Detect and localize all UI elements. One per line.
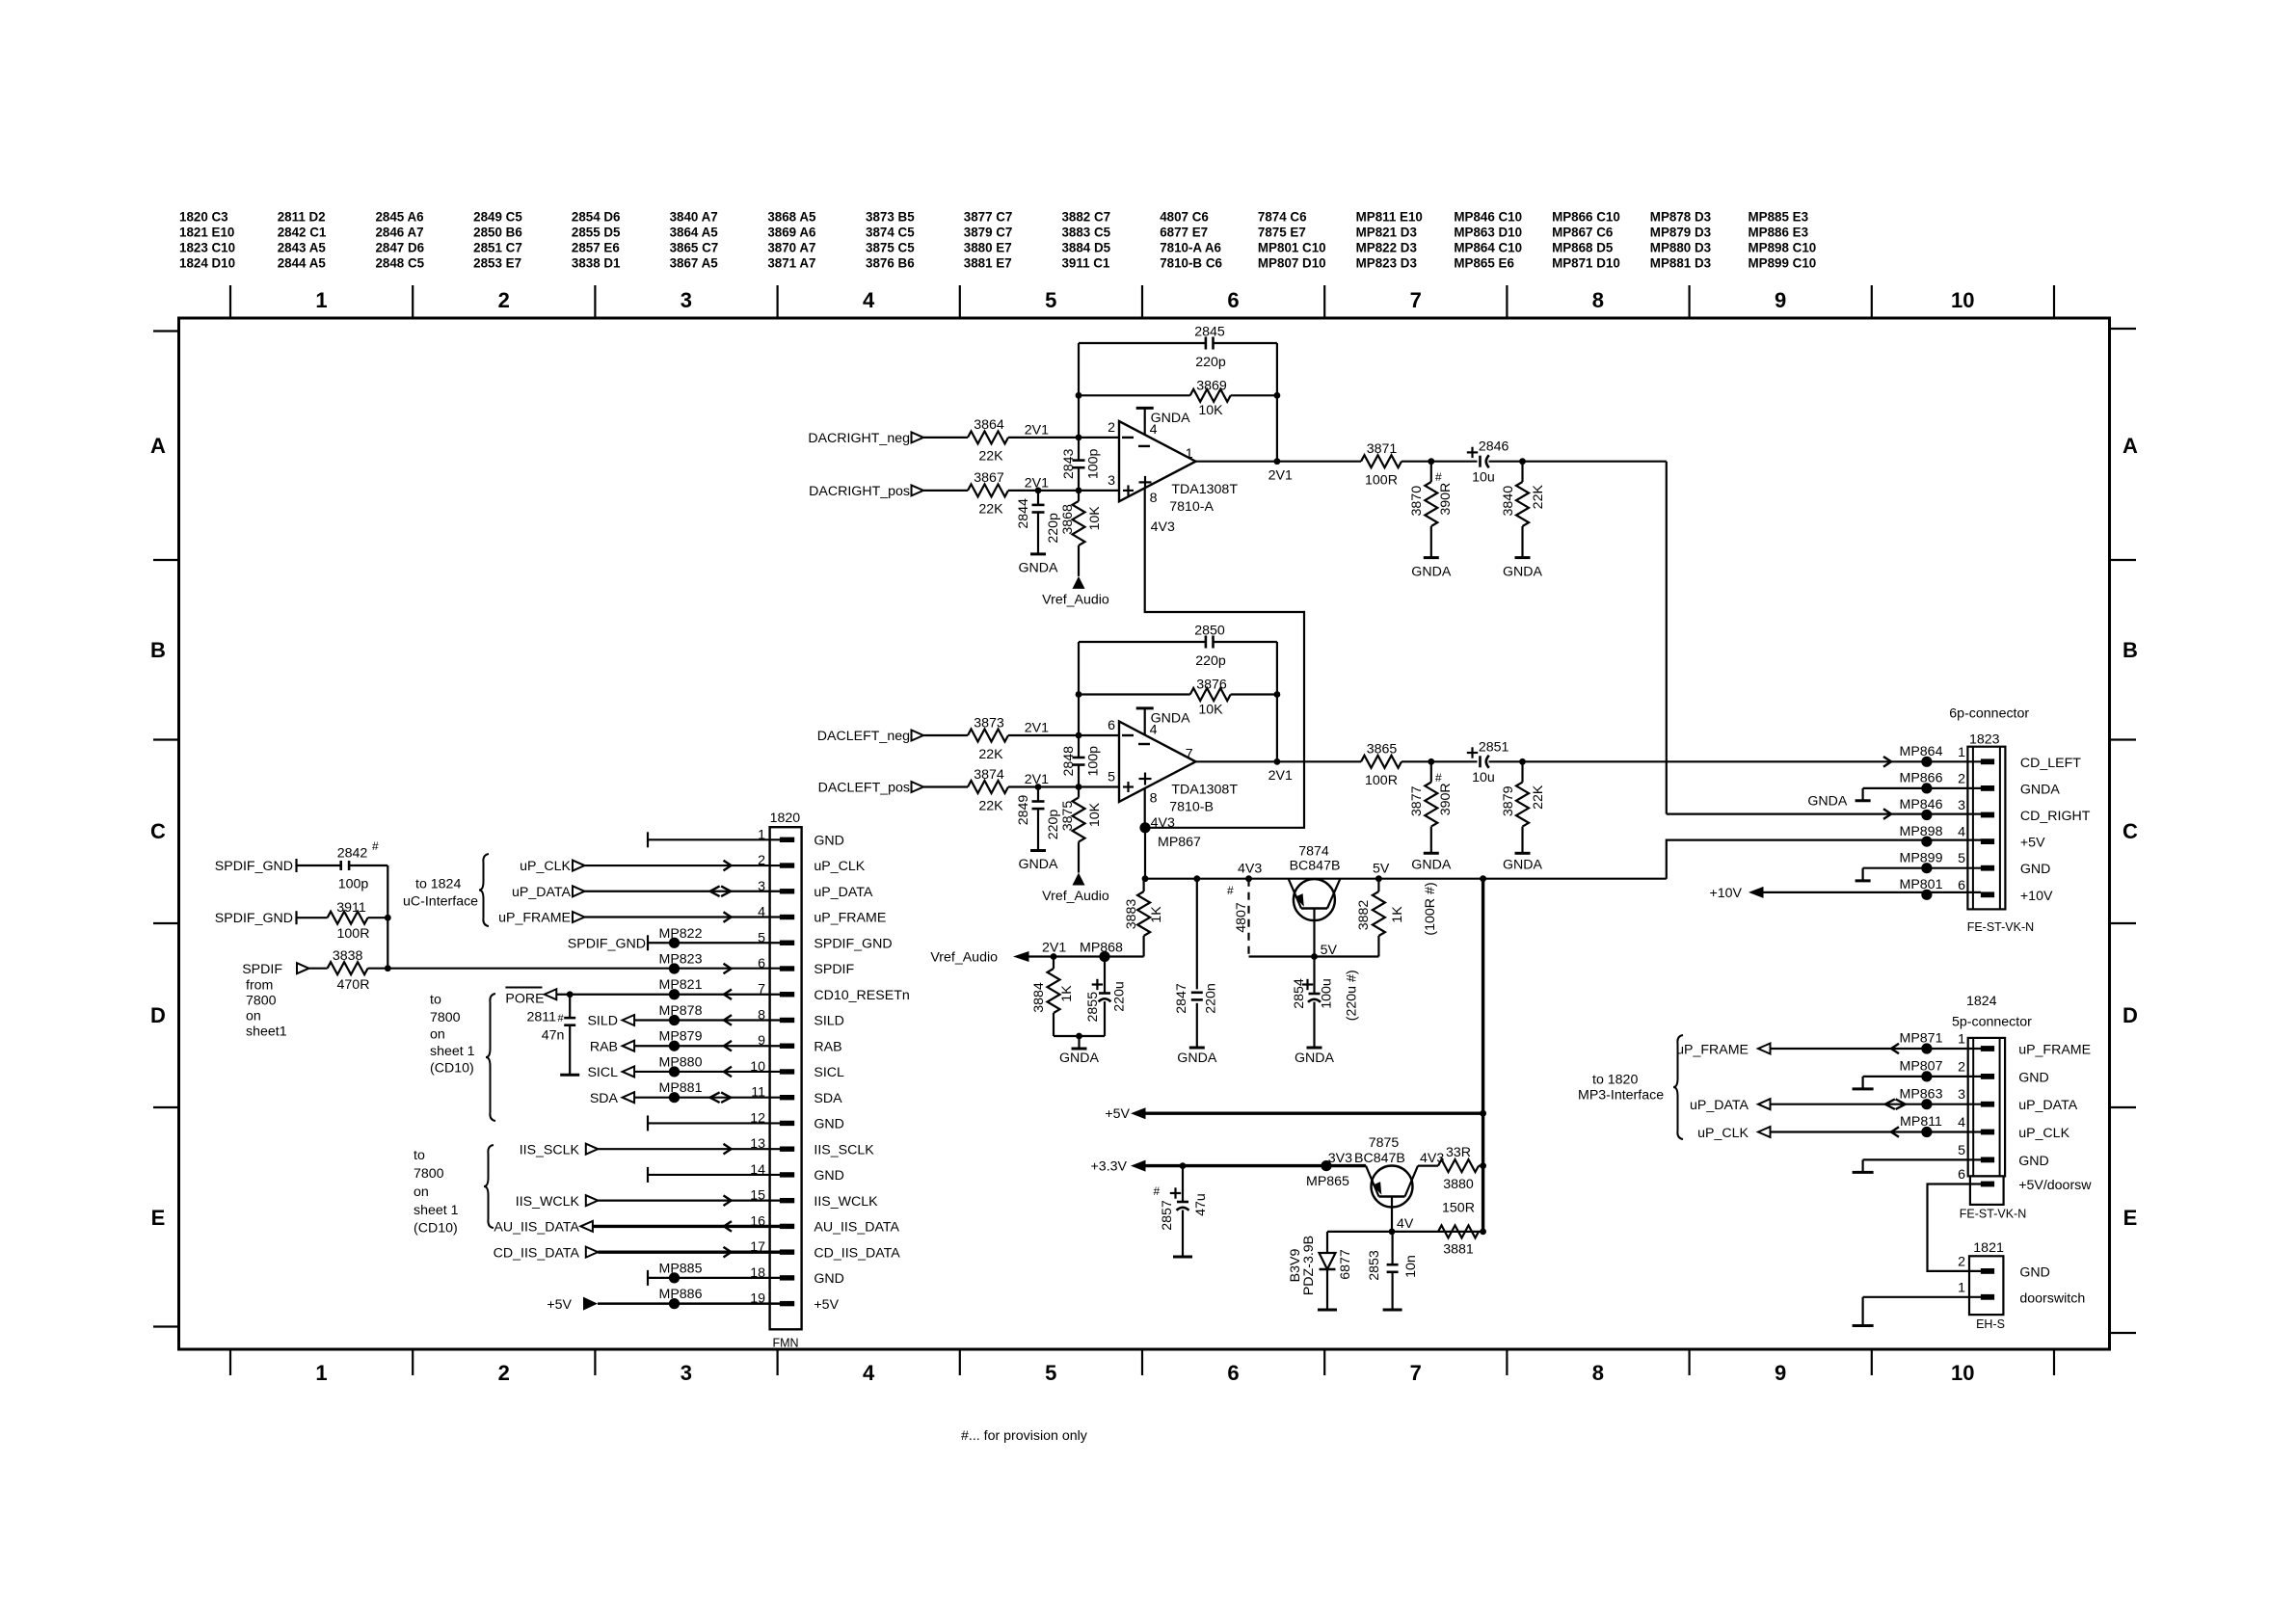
svg-text:2: 2	[1958, 1254, 1965, 1269]
svg-text:4: 4	[863, 288, 875, 312]
svg-text:MP863 D10: MP863 D10	[1454, 226, 1522, 240]
ground	[560, 1074, 579, 1077]
svg-text:1824: 1824	[1966, 994, 1997, 1009]
svg-text:MP864: MP864	[1900, 744, 1943, 759]
svg-text:3867 A5: 3867 A5	[670, 256, 719, 271]
svg-text:(CD10): (CD10)	[430, 1061, 474, 1077]
svg-text:2: 2	[1108, 420, 1115, 436]
node Vref_Audio	[1073, 873, 1085, 886]
resistor 3868 10K	[1078, 491, 1080, 501]
svg-text:MP886 E3: MP886 E3	[1749, 226, 1809, 240]
capacitor 2842 # 100p	[297, 865, 341, 866]
svg-text:TDA1308T: TDA1308T	[1171, 482, 1238, 497]
wire 4V3 net op-amp B pin8	[1144, 788, 1146, 828]
measuring point MP878	[669, 1015, 680, 1025]
measuring point MP846	[1921, 810, 1932, 820]
svg-text:GND: GND	[814, 1271, 844, 1287]
svg-text:100u: 100u	[1320, 978, 1335, 1009]
svg-text:DACRIGHT_pos: DACRIGHT_pos	[809, 484, 910, 499]
svg-text:CD_LEFT: CD_LEFT	[2020, 756, 2081, 771]
measuring point MP871	[1921, 1043, 1932, 1053]
svg-text:2847 D6: 2847 D6	[375, 241, 424, 255]
ground	[1318, 1309, 1337, 1312]
svg-text:MP811: MP811	[1900, 1114, 1942, 1130]
svg-text:uP_CLK: uP_CLK	[520, 859, 571, 874]
svg-text:5: 5	[1108, 770, 1115, 785]
svg-text:3883: 3883	[1124, 899, 1139, 930]
svg-text:MP881 D3: MP881 D3	[1650, 256, 1711, 271]
svg-text:4V3: 4V3	[1151, 519, 1175, 535]
svg-text:GNDA: GNDA	[1807, 793, 1848, 809]
connector 1820 pin 10 SICL	[780, 1069, 794, 1074]
svg-text:2850: 2850	[1194, 624, 1225, 639]
svg-text:2V1: 2V1	[1025, 721, 1049, 736]
svg-text:1: 1	[315, 288, 327, 312]
svg-text:uP_DATA: uP_DATA	[1690, 1098, 1749, 1113]
svg-text:RAB: RAB	[590, 1039, 618, 1054]
ground GNDA op-amp pin4	[1144, 708, 1146, 735]
measuring point MP863	[1921, 1099, 1932, 1109]
svg-text:#: #	[1154, 1184, 1161, 1198]
ground GNDA	[1189, 1047, 1205, 1050]
svg-text:7810-B C6: 7810-B C6	[1160, 256, 1222, 271]
svg-text:CD10_RESETn: CD10_RESETn	[814, 988, 909, 1003]
svg-text:2V1: 2V1	[1268, 467, 1293, 483]
connector 1823 pin 4 +5V	[1981, 838, 1994, 844]
svg-text:SPDIF: SPDIF	[242, 962, 282, 977]
capacitor 2851 10u	[1479, 756, 1482, 767]
wire feedback right	[1276, 343, 1278, 462]
capacitor 2855 220u	[1104, 957, 1106, 994]
measuring point MP801	[1921, 890, 1932, 900]
svg-text:6: 6	[1227, 1361, 1239, 1385]
svg-text:3875 C5: 3875 C5	[866, 241, 915, 255]
svg-text:GNDA: GNDA	[1151, 411, 1191, 426]
svg-text:3882 C7: 3882 C7	[1061, 210, 1110, 225]
svg-text:1821: 1821	[1973, 1240, 2004, 1256]
resistor 3865 100R	[1361, 756, 1402, 768]
svg-text:2848: 2848	[1061, 746, 1077, 777]
svg-text:MP822 D3: MP822 D3	[1356, 241, 1417, 255]
svg-text:SILD: SILD	[587, 1014, 618, 1029]
svg-text:3: 3	[681, 288, 692, 312]
svg-text:22K: 22K	[978, 747, 1003, 762]
svg-text:IIS_WCLK: IIS_WCLK	[516, 1194, 580, 1210]
svg-text:doorswitch: doorswitch	[2019, 1290, 2085, 1306]
svg-text:EH-S: EH-S	[1976, 1317, 2005, 1331]
wire pin12 GND stub	[647, 1115, 649, 1131]
capacitor 2848 100p	[1078, 735, 1080, 758]
measuring point MP898	[1921, 837, 1932, 847]
svg-text:GND: GND	[814, 1117, 844, 1132]
svg-text:7800: 7800	[246, 994, 277, 1009]
connector 1820 pin 15 IIS_WCLK	[780, 1198, 794, 1203]
measuring point MP807	[1921, 1071, 1932, 1081]
junction	[1076, 435, 1082, 441]
svg-text:#: #	[558, 1013, 565, 1024]
svg-text:3867: 3867	[974, 470, 1004, 486]
svg-text:DACRIGHT_neg: DACRIGHT_neg	[808, 431, 910, 446]
svg-text:SDA: SDA	[590, 1091, 619, 1106]
svg-text:3838 D1: 3838 D1	[572, 256, 621, 271]
svg-text:2811 D2: 2811 D2	[278, 210, 326, 225]
svg-text:uP_CLK: uP_CLK	[1697, 1126, 1749, 1141]
svg-text:on: on	[414, 1184, 429, 1200]
svg-text:MP879 D3: MP879 D3	[1650, 226, 1711, 240]
svg-text:3874: 3874	[974, 767, 1004, 783]
svg-text:8: 8	[1150, 791, 1158, 807]
svg-text:1K: 1K	[1390, 906, 1405, 923]
svg-text:4807: 4807	[1234, 902, 1249, 933]
ground GNDA op-amp pin4	[1144, 408, 1146, 435]
node Vref_Audio	[1073, 576, 1085, 589]
ground GNDA	[1515, 852, 1531, 855]
connector 1824 pin 3 uP_DATA	[1981, 1102, 1994, 1107]
svg-text:10K: 10K	[1198, 702, 1223, 717]
connector 1820 pin 12 GND	[780, 1121, 794, 1126]
svg-text:uP_CLK: uP_CLK	[814, 859, 865, 874]
svg-text:(220u #): (220u #)	[1345, 970, 1360, 1021]
svg-text:100p: 100p	[1086, 746, 1102, 777]
capacitor 2846 10u	[1479, 456, 1482, 467]
row ticks right	[2110, 559, 2137, 561]
svg-text:100R: 100R	[1365, 472, 1398, 488]
svg-text:GNDA: GNDA	[1177, 1051, 1217, 1066]
svg-text:from: from	[246, 978, 273, 994]
svg-text:MP801: MP801	[1900, 877, 1943, 892]
brace to 7800 sheet1 (CD10) upper	[486, 994, 495, 1121]
svg-text:GND: GND	[2018, 1154, 2049, 1169]
svg-text:1821 E10: 1821 E10	[179, 226, 234, 240]
svg-text:2853: 2853	[1367, 1250, 1382, 1281]
svg-text:DACLEFT_neg: DACLEFT_neg	[817, 729, 910, 744]
svg-text:3874 C5: 3874 C5	[866, 226, 915, 240]
connector 1820 pin 8 SILD	[780, 1018, 794, 1023]
svg-text:2V1: 2V1	[1268, 768, 1293, 784]
svg-text:D: D	[150, 1003, 166, 1027]
resistor 3838 470R	[309, 968, 328, 970]
svg-text:3880 E7: 3880 E7	[964, 241, 1012, 255]
svg-text:#: #	[1227, 884, 1234, 897]
svg-text:MP864 C10: MP864 C10	[1454, 241, 1522, 255]
svg-text:MP821 D3: MP821 D3	[1356, 226, 1417, 240]
svg-text:(CD10): (CD10)	[414, 1221, 458, 1237]
svg-text:uC-Interface: uC-Interface	[403, 894, 478, 910]
svg-text:Vref_Audio: Vref_Audio	[1042, 592, 1109, 607]
svg-text:MP846 C10: MP846 C10	[1454, 210, 1522, 225]
svg-text:9: 9	[1775, 288, 1786, 312]
connector 1820 pin 6 SPDIF	[780, 966, 794, 971]
svg-text:5: 5	[1958, 851, 1965, 866]
wire feedback resistor row	[1079, 394, 1190, 396]
measuring point MP879	[669, 1041, 680, 1051]
svg-text:MP871: MP871	[1900, 1031, 1943, 1047]
svg-text:3873: 3873	[974, 715, 1004, 731]
svg-text:2845: 2845	[1194, 325, 1225, 340]
op-amp 7810-B TDA1308T	[1119, 722, 1196, 802]
resistor 3876 10K	[1190, 688, 1231, 701]
svg-text:sheet 1: sheet 1	[414, 1203, 459, 1218]
svg-text:GNDA: GNDA	[1019, 857, 1059, 872]
connector 1820 pin 2 uP_CLK	[780, 863, 794, 867]
svg-text:3: 3	[1958, 798, 1965, 813]
svg-text:GNDA: GNDA	[1295, 1051, 1335, 1066]
svg-text:3840: 3840	[1501, 486, 1516, 517]
connector 1823 pin 1 CD_LEFT	[1981, 758, 1994, 764]
wire	[1008, 734, 1119, 736]
brace to 1824 uC-Interface	[479, 854, 489, 926]
svg-text:A: A	[2122, 434, 2138, 458]
ground GNDA	[1030, 552, 1046, 555]
svg-text:MP867: MP867	[1158, 835, 1201, 850]
svg-text:3864 A5: 3864 A5	[670, 226, 719, 240]
measuring point MP864	[1921, 757, 1932, 767]
capacitor 2811 # 47n	[569, 995, 571, 1018]
svg-text:2V1: 2V1	[1025, 422, 1049, 438]
svg-text:+5V: +5V	[814, 1297, 839, 1313]
measuring point MP868	[1099, 951, 1109, 962]
svg-text:22K: 22K	[1531, 785, 1546, 810]
wire output	[1196, 461, 1362, 463]
svg-text:5: 5	[1958, 1143, 1965, 1158]
measuring point MP867	[1139, 822, 1150, 833]
svg-text:B: B	[150, 638, 166, 662]
svg-text:3868 A5: 3868 A5	[767, 210, 816, 225]
svg-text:TDA1308T: TDA1308T	[1171, 783, 1238, 798]
connector 1824 pin 2 GND	[1981, 1074, 1994, 1079]
connector 1824 pin 5 GND	[1981, 1157, 1994, 1163]
ground GNDA	[1076, 1033, 1082, 1040]
svg-text:22K: 22K	[978, 449, 1003, 465]
svg-text:to 1824: to 1824	[415, 877, 461, 892]
svg-text:1: 1	[1186, 446, 1193, 462]
capacitor 2853 10n	[1391, 1232, 1393, 1264]
svg-text:22K: 22K	[978, 502, 1003, 518]
svg-text:100p: 100p	[1086, 449, 1102, 480]
svg-text:47u: 47u	[1193, 1193, 1209, 1216]
svg-text:4V: 4V	[1397, 1216, 1414, 1232]
svg-text:IIS_SCLK: IIS_SCLK	[520, 1142, 580, 1157]
wire	[1008, 490, 1119, 492]
svg-text:BC847B: BC847B	[1354, 1151, 1405, 1166]
svg-text:+3.3V: +3.3V	[1091, 1159, 1128, 1175]
svg-text:2V1: 2V1	[1042, 941, 1066, 956]
resistor 3911 100R	[297, 917, 328, 918]
svg-text:GNDA: GNDA	[1503, 565, 1543, 580]
svg-text:MP878 D3: MP878 D3	[1650, 210, 1711, 225]
connector 1820 pin 7 CD10_RESETn	[780, 992, 794, 997]
svg-text:#: #	[1435, 470, 1442, 484]
svg-text:2842 C1: 2842 C1	[278, 226, 327, 240]
wire +5V trunk	[1482, 879, 1484, 1232]
svg-text:3879: 3879	[1501, 785, 1516, 816]
connector 1824 pin 6 +5V/doorsw	[1981, 1182, 1994, 1187]
wire pin14 GND stub	[647, 1167, 649, 1183]
node +10V pin6	[1764, 891, 1982, 893]
ground	[1173, 1256, 1192, 1259]
capacitor 2854 100u (220u #)	[1313, 957, 1315, 995]
svg-text:100R: 100R	[1365, 773, 1398, 788]
junction	[1035, 784, 1042, 790]
svg-text:220p: 220p	[1046, 810, 1061, 840]
connector 1823 pin 3 CD_RIGHT	[1981, 812, 1994, 818]
wire output	[1196, 760, 1362, 762]
svg-text:2853 E7: 2853 E7	[473, 256, 521, 271]
svg-text:1: 1	[315, 1361, 327, 1385]
connector 1824 pin 4 uP_CLK	[1981, 1130, 1994, 1135]
wire	[923, 490, 968, 492]
svg-text:4: 4	[1958, 1115, 1965, 1131]
transistor 7874 BC847B	[1294, 879, 1335, 920]
wire feedback left	[1078, 642, 1080, 735]
measuring point MP886	[669, 1298, 680, 1309]
svg-text:SICL: SICL	[814, 1065, 844, 1080]
ground	[1383, 1309, 1402, 1312]
svg-text:1K: 1K	[1059, 985, 1075, 1002]
svg-text:SPDIF_GND: SPDIF_GND	[568, 936, 646, 951]
wire	[1008, 437, 1119, 439]
svg-text:GND: GND	[2019, 1264, 2050, 1280]
svg-text:390R: 390R	[1438, 483, 1454, 516]
svg-text:MP865 E6: MP865 E6	[1454, 256, 1514, 271]
svg-text:+5V: +5V	[547, 1297, 572, 1313]
wire	[923, 785, 968, 787]
connector 1820 pin 19 +5V	[780, 1301, 794, 1306]
row ticks left	[153, 559, 179, 561]
svg-text:MP898: MP898	[1900, 824, 1943, 839]
svg-text:3876 B6: 3876 B6	[866, 256, 915, 271]
svg-text:1: 1	[1958, 745, 1965, 760]
svg-text:5V: 5V	[1321, 943, 1338, 958]
wire	[1402, 760, 1478, 762]
resistor 3877 390R	[1430, 761, 1432, 782]
resistor 3867 22K	[968, 484, 1008, 496]
svg-text:2844: 2844	[1016, 498, 1031, 529]
wire bus	[387, 865, 388, 969]
svg-text:10: 10	[1951, 288, 1974, 312]
junction	[1076, 732, 1082, 739]
svg-text:2845 A6: 2845 A6	[375, 210, 423, 225]
svg-text:3881: 3881	[1443, 1242, 1474, 1258]
svg-text:10K: 10K	[1087, 506, 1103, 531]
svg-text:GNDA: GNDA	[2020, 782, 2061, 797]
svg-text:7800: 7800	[430, 1010, 461, 1025]
svg-text:4: 4	[1958, 825, 1965, 840]
ground GNDA	[1424, 556, 1439, 559]
svg-text:8: 8	[1592, 1361, 1604, 1385]
svg-text:AU_IIS_DATA: AU_IIS_DATA	[494, 1220, 579, 1236]
wire	[1008, 785, 1119, 787]
capacitor 2857 # 47u	[1180, 1162, 1187, 1169]
svg-text:MP811 E10: MP811 E10	[1356, 210, 1423, 225]
svg-text:8: 8	[1592, 288, 1604, 312]
svg-text:(100R #): (100R #)	[1423, 882, 1438, 935]
svg-text:2851 C7: 2851 C7	[473, 241, 522, 255]
svg-text:7810-A A6: 7810-A A6	[1160, 241, 1221, 255]
svg-text:GNDA: GNDA	[1019, 560, 1059, 575]
wire 4V line	[1327, 1231, 1483, 1233]
measuring point MP822	[669, 938, 680, 948]
svg-text:FMN: FMN	[772, 1337, 798, 1350]
svg-text:#: #	[372, 839, 379, 853]
svg-text:3868: 3868	[1060, 504, 1076, 535]
svg-text:470R: 470R	[337, 977, 370, 993]
wire pin1 GND stub	[647, 832, 649, 847]
ground pin5	[1863, 1158, 1981, 1160]
svg-text:MP885 E3: MP885 E3	[1749, 210, 1809, 225]
svg-text:6877 E7: 6877 E7	[1160, 226, 1208, 240]
resistor 3882 1K (100R #)	[1377, 879, 1379, 891]
column ticks bottom	[229, 1349, 231, 1375]
svg-text:3883 C5: 3883 C5	[1061, 226, 1110, 240]
svg-text:D: D	[2122, 1003, 2138, 1027]
svg-text:47n: 47n	[542, 1028, 565, 1044]
svg-text:MP823: MP823	[659, 952, 703, 968]
ground GNDA	[1424, 852, 1439, 855]
svg-text:3881 E7: 3881 E7	[964, 256, 1012, 271]
svg-text:on: on	[246, 1009, 261, 1024]
ground pin2	[1863, 1076, 1981, 1078]
svg-text:2857 E6: 2857 E6	[572, 241, 620, 255]
svg-text:E: E	[2123, 1206, 2138, 1230]
svg-text:MP880: MP880	[659, 1054, 703, 1070]
svg-text:3864: 3864	[974, 417, 1004, 433]
capacitor 2843 100p	[1078, 438, 1080, 461]
svg-text:4V3: 4V3	[1238, 862, 1262, 877]
svg-text:2848 C5: 2848 C5	[375, 256, 424, 271]
measuring point MP899	[1921, 863, 1932, 873]
svg-text:6: 6	[1108, 718, 1115, 733]
svg-text:6: 6	[1958, 1167, 1965, 1183]
svg-text:MP868: MP868	[1080, 941, 1123, 956]
resistor 4807 (provision, dashed)	[1247, 879, 1249, 957]
svg-text:GNDA: GNDA	[1503, 857, 1543, 872]
measuring point MP881	[669, 1092, 680, 1103]
svg-text:MP871 D10: MP871 D10	[1552, 256, 1620, 271]
svg-text:MP886: MP886	[659, 1287, 703, 1302]
svg-text:B: B	[2122, 638, 2138, 662]
svg-text:SPDIF_GND: SPDIF_GND	[215, 911, 293, 926]
svg-text:2857: 2857	[1160, 1200, 1175, 1231]
capacitor 2849 220p	[1037, 787, 1039, 802]
svg-text:AU_IIS_DATA: AU_IIS_DATA	[814, 1220, 899, 1236]
svg-text:2846 A7: 2846 A7	[375, 226, 423, 240]
svg-text:3875: 3875	[1060, 801, 1076, 832]
capacitor 2844 220p	[1037, 491, 1039, 505]
svg-text:MP822: MP822	[659, 926, 703, 942]
svg-text:#: #	[1435, 771, 1442, 785]
resistor 3883 1K	[1142, 879, 1144, 891]
svg-text:3870 A7: 3870 A7	[767, 241, 815, 255]
svg-text:1823: 1823	[1969, 732, 2000, 748]
svg-text:150R: 150R	[1442, 1201, 1475, 1216]
connector 1820 pin 4 uP_FRAME	[780, 915, 794, 919]
connector 1820 pin 18 GND	[780, 1275, 794, 1280]
svg-text:GNDA: GNDA	[1059, 1051, 1100, 1066]
svg-text:7: 7	[1410, 1361, 1422, 1385]
measuring point MP866	[1921, 783, 1932, 793]
connector 1820 pin 17 CD_IIS_DATA	[780, 1249, 794, 1254]
svg-text:2851: 2851	[1479, 739, 1509, 755]
svg-text:10K: 10K	[1087, 802, 1103, 827]
wire pin6 +5V/doorsw to 1821	[1928, 1184, 1982, 1271]
svg-text:2847: 2847	[1174, 983, 1189, 1014]
svg-text:390R: 390R	[1438, 783, 1454, 815]
svg-text:3871 A7: 3871 A7	[767, 256, 815, 271]
svg-text:on: on	[430, 1027, 445, 1043]
svg-text:3882: 3882	[1356, 900, 1372, 931]
svg-text:uP_DATA: uP_DATA	[814, 885, 873, 900]
